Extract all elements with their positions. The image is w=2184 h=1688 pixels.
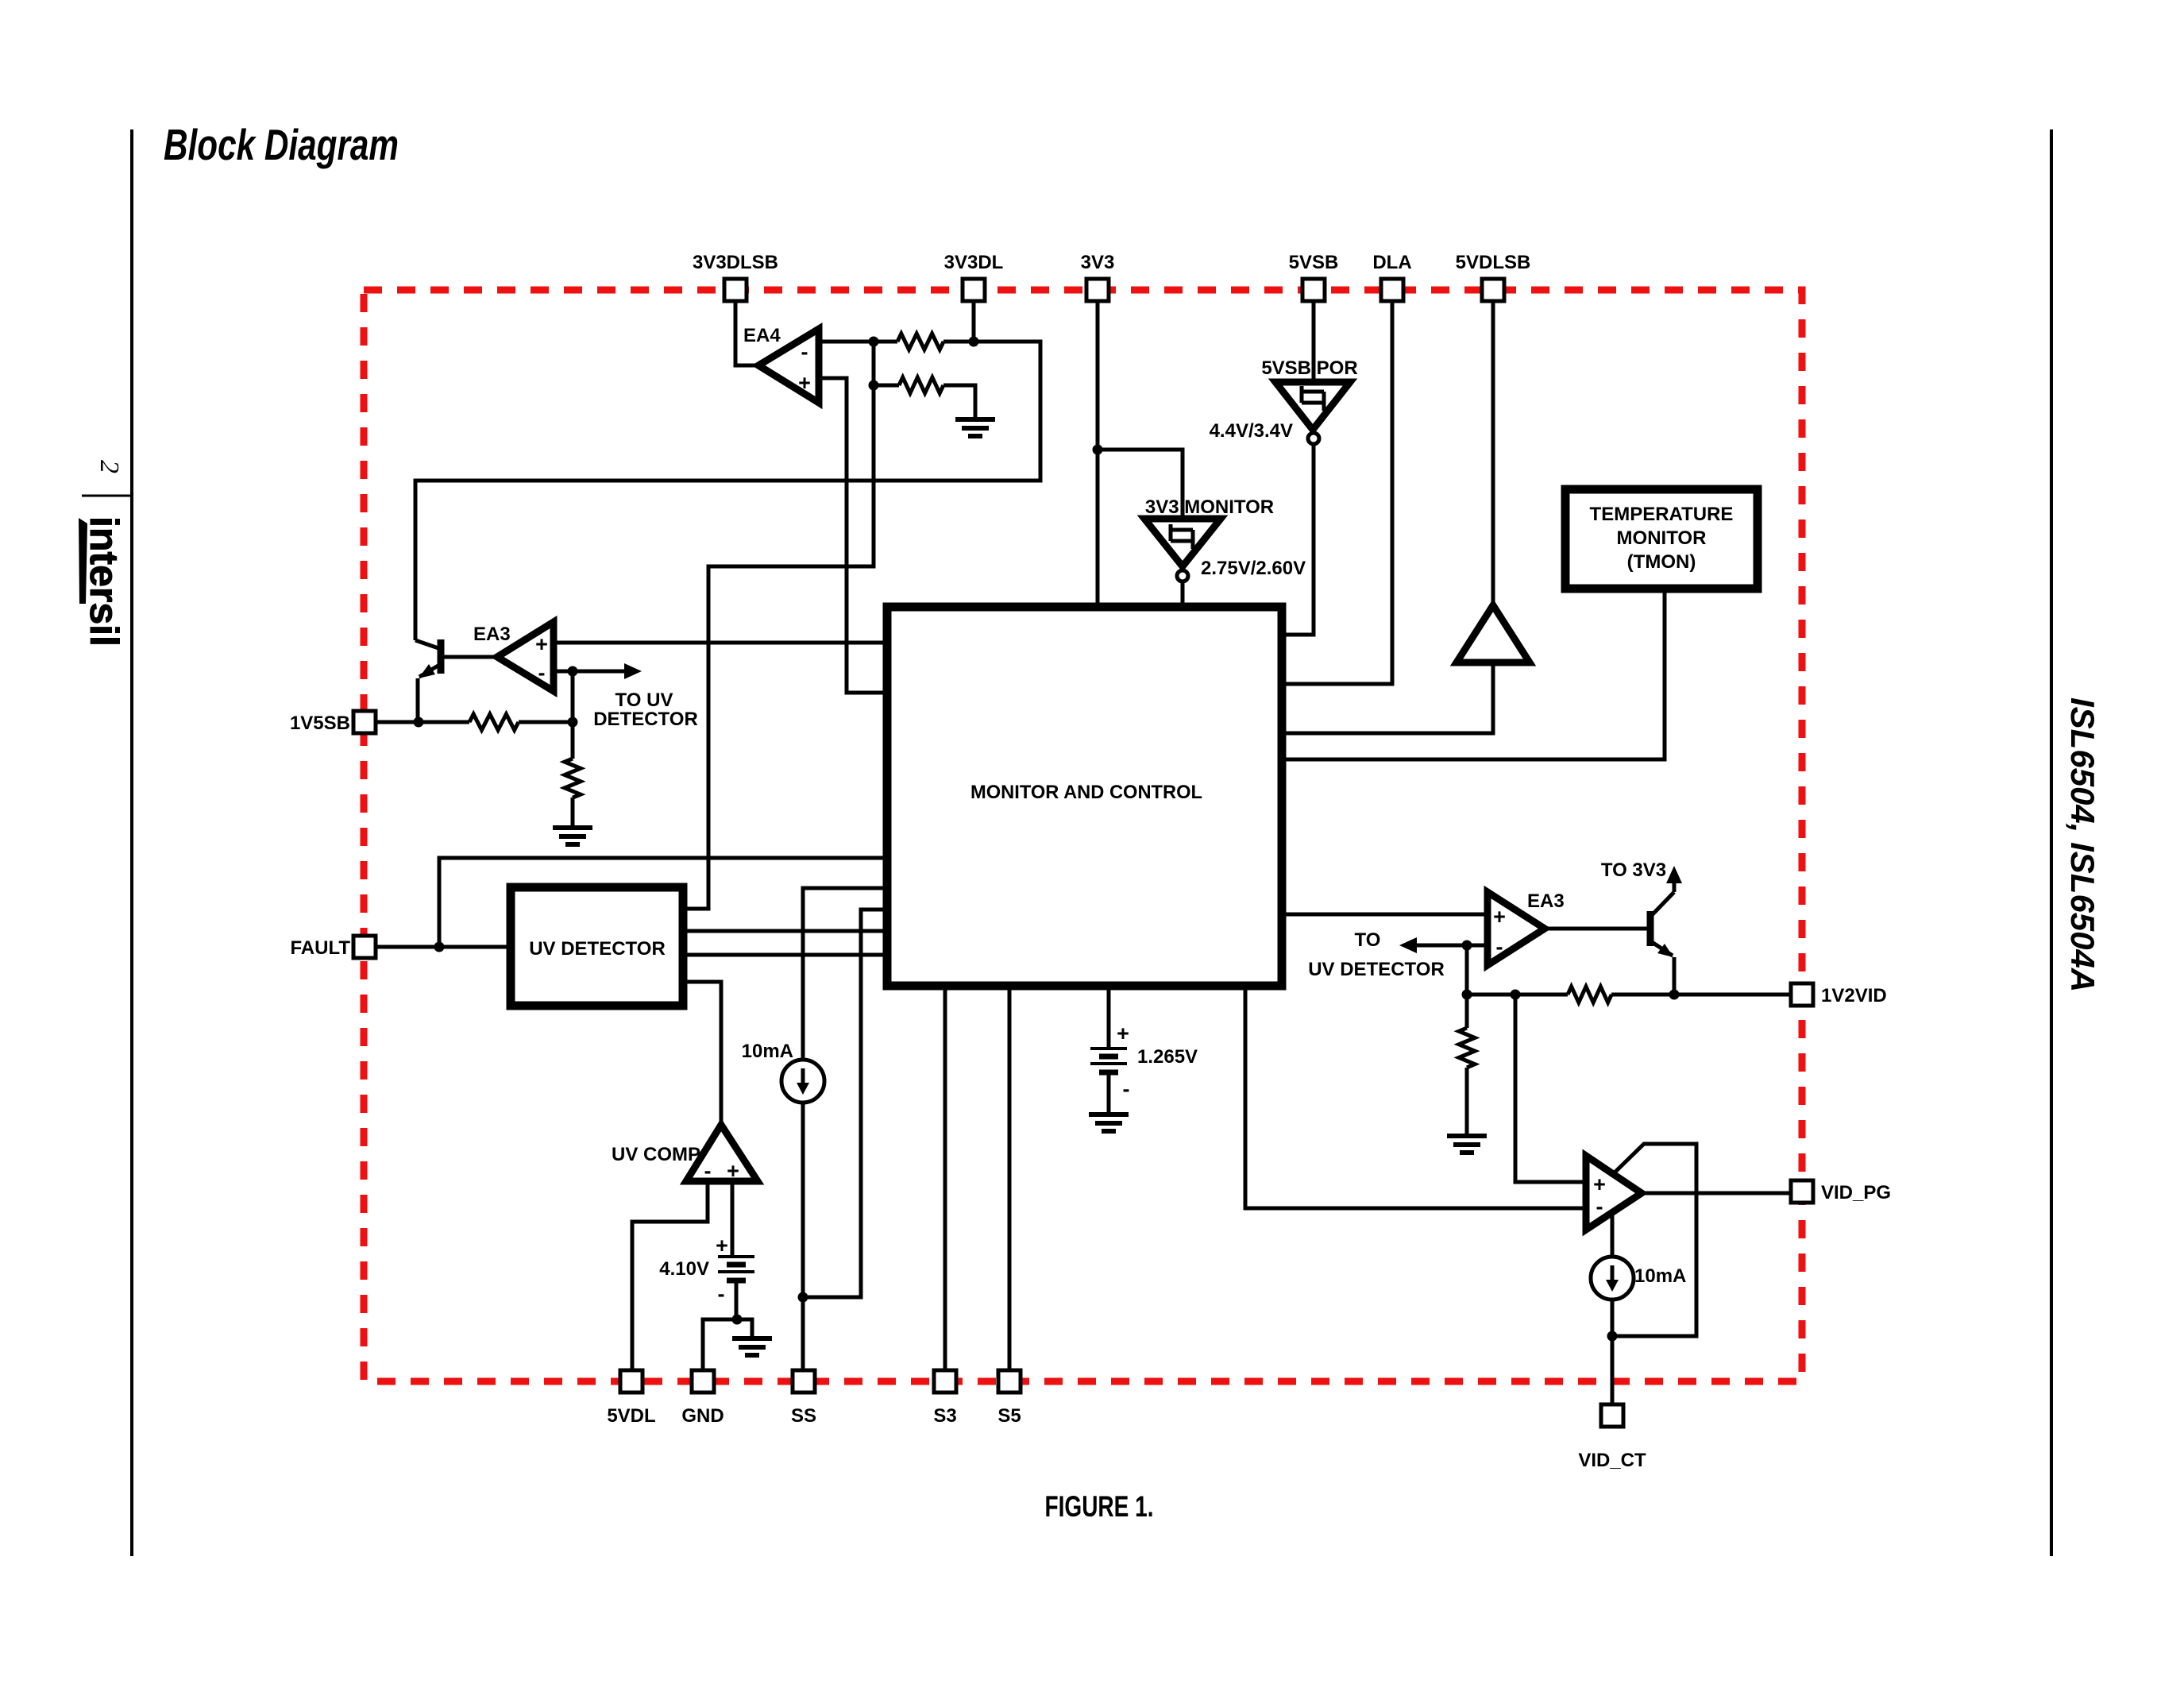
svg-text:3V3DL: 3V3DL <box>944 252 1004 273</box>
svg-text:-: - <box>1496 935 1503 959</box>
node 3V3 branch <box>1093 445 1103 455</box>
comparator UV COMP <box>686 1125 758 1181</box>
wire ground stub <box>737 1319 752 1338</box>
pin SS <box>793 1370 815 1393</box>
side title ISL6504, ISL6504A <box>2064 697 2101 992</box>
ground (divider) <box>955 419 995 436</box>
svg-text:GND: GND <box>681 1405 723 1427</box>
svg-text:TEMPERATURE: TEMPERATURE <box>1590 504 1734 525</box>
wire divider node to UV detector output <box>683 385 874 909</box>
svg-text:VID_PG: VID_PG <box>1821 1182 1891 1203</box>
wire UV COMP noninverting input to 4.10V <box>731 1181 735 1255</box>
node EA3 right inverting <box>1462 941 1472 951</box>
op-amp EA3 (left) <box>497 622 554 691</box>
svg-text:Block Diagram: Block Diagram <box>164 120 399 169</box>
block TEMPERATURE MONITOR (TMON) <box>1565 489 1758 589</box>
node 1V2VID right <box>1669 990 1680 1000</box>
pin 1V2VID <box>1791 983 1813 1006</box>
resistor 1V2VID series <box>1568 987 1611 1002</box>
svg-text:+: + <box>1493 905 1506 929</box>
wire 3V3DLSB to EA4 output <box>735 302 758 365</box>
wire DLA pin to box <box>1282 302 1392 684</box>
current source 10mA (soft start) <box>781 1060 824 1103</box>
svg-text:UV DETECTOR: UV DETECTOR <box>529 938 666 960</box>
svg-text:MONITOR AND CONTROL: MONITOR AND CONTROL <box>970 782 1202 803</box>
svg-text:S3: S3 <box>933 1405 956 1427</box>
wire divider resistor to ground leg <box>874 385 975 419</box>
wire box to VID_PG comparator inverting input <box>1245 986 1586 1208</box>
battery 1.265V reference <box>1090 1049 1127 1064</box>
pin VID_CT <box>1601 1404 1623 1427</box>
svg-text:1V2VID: 1V2VID <box>1821 985 1887 1006</box>
wire 3V3 pin to control box <box>1096 302 1100 607</box>
svg-text:-: - <box>1123 1077 1130 1101</box>
wire divider junction vertical <box>872 342 876 385</box>
wire Q2 collector to 3V3 arrow <box>1673 880 1677 892</box>
pin DLA <box>1381 279 1403 301</box>
svg-text:-: - <box>718 1282 725 1306</box>
wire right divider to ground <box>1465 995 1469 1136</box>
svg-text:10mA: 10mA <box>742 1041 793 1062</box>
svg-text:+: + <box>1593 1172 1606 1196</box>
svg-text:SS: SS <box>791 1405 816 1427</box>
svg-text:EA3: EA3 <box>473 624 511 645</box>
svg-text:ISL6504, ISL6504A: ISL6504, ISL6504A <box>2064 697 2101 992</box>
page frame right rule <box>2050 129 2053 1556</box>
intersil logo <box>79 516 126 647</box>
wire EA4 inverting input to node <box>819 340 974 344</box>
wire arrow to UV detector (right) <box>1414 944 1467 948</box>
node FAULT <box>434 942 445 952</box>
svg-text:TO: TO <box>1355 929 1381 951</box>
svg-text:2: 2 <box>95 460 124 473</box>
wire 4.10V to ground node <box>735 1281 739 1319</box>
wire 5VSB pin to POR <box>1312 302 1316 382</box>
wire EA4 noninverting input into control box <box>819 378 887 693</box>
pin 3V3DLSB <box>724 279 747 301</box>
svg-text:-: - <box>1596 1195 1603 1219</box>
svg-text:5VSB: 5VSB <box>1289 252 1339 273</box>
svg-text:UV COMP: UV COMP <box>612 1144 700 1165</box>
op-amp EA4 <box>758 329 819 403</box>
svg-text:1V5SB: 1V5SB <box>290 713 350 734</box>
svg-text:+: + <box>727 1159 739 1183</box>
transistor Q2 (right) <box>1647 911 1654 946</box>
wire left divider to ground <box>571 722 575 828</box>
node divider top <box>869 337 879 347</box>
pin S5 <box>998 1370 1021 1393</box>
wire buffer output to box <box>1282 662 1493 733</box>
node 1V2VID mid <box>1511 990 1521 1000</box>
resistor divider top (EA4) <box>897 334 943 350</box>
svg-text:MONITOR: MONITOR <box>1617 527 1707 549</box>
pin 3V3DL <box>963 279 985 301</box>
comparator 3V3 MONITOR <box>1144 519 1221 566</box>
svg-text:-: - <box>538 661 546 685</box>
pin GND <box>692 1370 714 1393</box>
svg-text:4.10V: 4.10V <box>659 1258 709 1280</box>
wire comparator to 10mA source to VID_CT <box>1611 1211 1615 1404</box>
wire EA3 left noninverting input from box <box>554 641 887 645</box>
wire box SS branch <box>803 910 887 1297</box>
wire 3V3DL pin stub <box>972 302 976 342</box>
wire UV COMP inverting input to 5VDL <box>632 1181 708 1370</box>
wire box to 1.265V reference <box>1107 986 1111 1047</box>
svg-text:1.265V: 1.265V <box>1137 1046 1198 1068</box>
wire box to 10mA source and SS <box>803 888 887 1370</box>
wire 3V3 branch to monitor <box>1098 450 1183 519</box>
wire 5VDLSB pin to buffer <box>1491 302 1495 605</box>
svg-text:FAULT: FAULT <box>290 937 350 959</box>
svg-text:FIGURE 1.: FIGURE 1. <box>1045 1490 1154 1523</box>
svg-text:intersil: intersil <box>82 516 126 647</box>
wire TMON to box <box>1282 589 1665 759</box>
svg-text:DETECTOR: DETECTOR <box>593 709 698 730</box>
svg-text:+: + <box>535 632 548 656</box>
resistor divider bottom (EA4) <box>899 377 943 393</box>
pin FAULT <box>353 936 376 958</box>
node 1V2VID left <box>1462 990 1472 1000</box>
wire GND pin riser <box>703 1319 737 1370</box>
page number 2 <box>95 460 124 473</box>
ground (1V5SB divider) <box>553 828 592 844</box>
current source 10mA (VID_CT) <box>1591 1257 1634 1300</box>
pin VID_PG <box>1791 1180 1813 1203</box>
wire box to EA3 right noninverting input <box>1282 913 1488 917</box>
wire box to S5 pin <box>1008 986 1012 1370</box>
node EA3 left inverting <box>568 666 578 677</box>
transistor Q1 (left) <box>438 639 445 674</box>
svg-text:5VDL: 5VDL <box>607 1405 655 1427</box>
wire Q2 emitter down <box>1673 957 1677 995</box>
battery 4.10V reference <box>718 1257 754 1272</box>
node 3V3DL <box>969 337 979 347</box>
wire box to S3 pin <box>943 986 947 1370</box>
pin 5VDL <box>620 1370 642 1393</box>
ground (1V2VID divider) <box>1447 1136 1487 1153</box>
chip boundary red dashed border <box>364 290 1802 1381</box>
block MONITOR AND CONTROL <box>887 607 1282 986</box>
wire VID_PG comparator output to pin <box>1642 1192 1791 1196</box>
ground (4.10V ref) <box>732 1338 772 1355</box>
wire EA3 right inverting input node <box>1467 945 1488 995</box>
svg-text:+: + <box>798 371 811 395</box>
wire EA3 right output to Q2 base <box>1545 927 1649 931</box>
wire EA3 left inverting input node <box>554 671 573 722</box>
node 1V5SB divider <box>568 717 578 728</box>
svg-text:10mA: 10mA <box>1634 1265 1686 1287</box>
buffer (5VDLSB) <box>1457 605 1530 662</box>
wire arrow to UV detector (left) <box>573 670 627 674</box>
svg-text:DLA: DLA <box>1372 252 1411 273</box>
svg-text:TO UV: TO UV <box>615 689 673 711</box>
wire FAULT to UV detector <box>376 945 511 949</box>
resistor 1V5SB to ground <box>565 759 581 798</box>
page frame left rule <box>130 129 133 1556</box>
wire 1V5SB row <box>376 720 573 724</box>
svg-text:+: + <box>716 1234 728 1257</box>
svg-text:TO 3V3: TO 3V3 <box>1601 859 1666 881</box>
resistor 1V2VID to ground <box>1459 1028 1475 1068</box>
pin S3 <box>934 1370 956 1393</box>
svg-text:EA3: EA3 <box>1527 890 1565 912</box>
svg-text:3V3DLSB: 3V3DLSB <box>693 252 778 273</box>
wire Q1 emitter <box>416 678 420 722</box>
svg-text:+: + <box>1117 1022 1129 1045</box>
wire POR output to box <box>1282 444 1314 635</box>
svg-text:-: - <box>801 340 808 364</box>
comparator VID_PG <box>1586 1156 1642 1230</box>
svg-text:-: - <box>704 1159 712 1183</box>
wire UV detector to UV COMP <box>683 982 721 1125</box>
wire UV detector outputs to box <box>683 931 887 955</box>
wire 3V3 monitor output to box <box>1181 581 1185 607</box>
resistor 1V5SB series <box>469 714 519 730</box>
pin 1V5SB <box>353 711 376 733</box>
comparator 5VSB POR <box>1275 382 1350 430</box>
wire feedback loop 3V3DL node to transistor collector <box>415 342 1040 640</box>
node VID_CT <box>1607 1331 1618 1342</box>
svg-text:EA4: EA4 <box>743 325 781 346</box>
ground (1.265V ref) <box>1089 1114 1129 1131</box>
svg-text:3V3 MONITOR: 3V3 MONITOR <box>1145 496 1274 518</box>
svg-text:2.75V/2.60V: 2.75V/2.60V <box>1201 558 1306 579</box>
op-amp EA3 (right) <box>1488 892 1545 965</box>
block UV DETECTOR <box>511 887 683 1006</box>
svg-text:S5: S5 <box>997 1405 1021 1427</box>
pin 5VDLSB <box>1482 279 1504 301</box>
node 1V5SB emitter <box>414 717 424 728</box>
wire 1.265V reference to ground <box>1107 1072 1111 1114</box>
svg-text:5VSB POR: 5VSB POR <box>1261 357 1357 379</box>
svg-text:3V3: 3V3 <box>1081 252 1115 273</box>
wire 1V2VID node to VID_PG comparator noninverting input <box>1515 995 1586 1182</box>
pin 3V3 <box>1086 279 1109 301</box>
pin 5VSB <box>1302 279 1325 301</box>
node SS <box>798 1292 808 1303</box>
wire FAULT branch to control box <box>439 858 887 947</box>
node 4.10V minus <box>732 1315 743 1325</box>
wire VID_PG feedback loop <box>1612 1144 1696 1336</box>
svg-text:4.4V/3.4V: 4.4V/3.4V <box>1210 420 1293 442</box>
svg-text:UV DETECTOR: UV DETECTOR <box>1308 959 1445 980</box>
svg-text:5VDLSB: 5VDLSB <box>1456 252 1531 273</box>
node divider bottom <box>869 380 879 391</box>
svg-text:(TMON): (TMON) <box>1627 551 1696 573</box>
wire 1V2VID row <box>1467 993 1791 997</box>
svg-text:VID_CT: VID_CT <box>1578 1450 1646 1471</box>
page frame tick <box>82 495 132 497</box>
